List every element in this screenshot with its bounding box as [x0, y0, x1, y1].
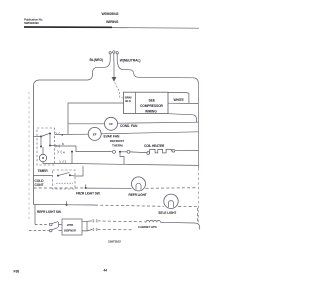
- svg-text:WTR: WTR: [67, 223, 73, 227]
- connector plug 1: [93, 220, 98, 223]
- svg-text:WHITE: WHITE: [174, 98, 185, 102]
- ground arrow: [112, 77, 117, 82]
- wire refr switch row: [34, 204, 67, 206]
- svg-text:COMPRESSOR: COMPRESSOR: [140, 104, 164, 108]
- svg-text:COND. FAN: COND. FAN: [120, 124, 138, 128]
- svg-text:REFR LIGHT: REFR LIGHT: [129, 193, 147, 197]
- wire cold control out: [70, 166, 83, 176]
- timer internal wires: [40, 137, 42, 147]
- wire to defrost heater: [130, 151, 147, 154]
- svg-text:FRZR LIGHT SW.: FRZR LIGHT SW.: [76, 192, 100, 196]
- switch door 2: [49, 229, 52, 232]
- wire line side left: [34, 60, 111, 86]
- freezer light switch node: [85, 187, 87, 189]
- defrost timer dashed box: [37, 128, 55, 165]
- svg-text:CF: CF: [109, 122, 113, 126]
- connector bracket: [82, 221, 87, 231]
- wire neutral side right: [117, 60, 198, 84]
- svg-text:CONT: CONT: [35, 183, 44, 187]
- wire timer 3 to defrost row: [55, 146, 112, 152]
- timer switch arm: [41, 133, 50, 136]
- power plug prong circles: [109, 52, 111, 54]
- wire to cabinet heater dashed: [98, 221, 147, 222]
- left bus wire: [33, 86, 35, 205]
- right bus wire: [197, 84, 199, 169]
- defrost thermostat terminal: [113, 150, 116, 153]
- wire lamp to neutral dashed: [146, 187, 197, 190]
- power plug prongs: [109, 54, 111, 60]
- wire EF right: [101, 132, 198, 134]
- defrost heater terminal right: [172, 149, 175, 152]
- header publication text: [24, 12, 119, 25]
- water dispenser box: [62, 219, 82, 235]
- svg-text:4: 4: [63, 151, 65, 155]
- ground wire: [113, 61, 115, 77]
- cold control feed wire: [34, 175, 53, 177]
- evaporator fan motor EF: [88, 127, 101, 140]
- wire freezer light row dashed: [34, 187, 84, 189]
- wire door switch row 2: [29, 230, 49, 232]
- svg-text:15971102: 15971102: [108, 239, 121, 243]
- wire CF left: [68, 123, 105, 125]
- wire stub row2 dashed: [98, 228, 133, 230]
- svg-text:F38: F38: [14, 269, 20, 273]
- wire heater to neutral: [175, 150, 199, 152]
- label COLD CONT: [35, 179, 45, 187]
- label DEFROST THERM: [110, 139, 124, 147]
- node neutral branch: [71, 151, 73, 153]
- svg-text:CABINET HTR.: CABINET HTR.: [138, 225, 158, 229]
- wire CF right: [118, 122, 199, 123]
- timer terminal bumps: [55, 132, 60, 134]
- svg-text:3: 3: [62, 142, 64, 146]
- svg-text:1: 1: [65, 160, 67, 164]
- wire EF left from timer: [55, 133, 89, 135]
- svg-text:BL(NEG): BL(NEG): [90, 58, 103, 62]
- condenser fan motor CF: [105, 117, 118, 130]
- svg-text:WIRING: WIRING: [106, 20, 119, 24]
- svg-text:BLK: BLK: [125, 99, 132, 103]
- node defrost junction: [119, 151, 121, 153]
- svg-text:2: 2: [62, 133, 64, 137]
- lamp bottle light: [164, 194, 178, 208]
- svg-text:WIRING: WIRING: [145, 109, 157, 113]
- wire door switch feed: [34, 205, 36, 225]
- svg-text:TIMER: TIMER: [38, 169, 49, 173]
- svg-text:EF: EF: [93, 132, 97, 136]
- switch door 1: [49, 223, 52, 226]
- wire bus to timer contact: [34, 136, 42, 138]
- defrost heater terminal: [147, 152, 150, 155]
- resistor defrost heater: [150, 149, 172, 153]
- svg-text:EVAP. FAN: EVAP. FAN: [104, 135, 121, 139]
- wire compressor top to neutral: [168, 92, 189, 103]
- header rule: [24, 26, 112, 28]
- connector plug 2: [93, 228, 98, 231]
- svg-text:THERM.: THERM.: [112, 143, 123, 147]
- svg-text:5995394099: 5995394099: [24, 21, 39, 25]
- svg-text:DISPNSR: DISPNSR: [64, 229, 76, 233]
- svg-text:COIL HEATER: COIL HEATER: [144, 144, 165, 148]
- wire defrost stat drop: [120, 153, 124, 165]
- wire to compressor box: [68, 103, 124, 134]
- ground dashed tail: [115, 83, 124, 99]
- left cabinet dashed border: [28, 92, 30, 219]
- compressor box: [124, 92, 169, 113]
- wire to refr lamp: [87, 187, 132, 189]
- svg-text:BTLE LIGHT: BTLE LIGHT: [159, 211, 177, 215]
- wire to bottle lamp dashed: [95, 205, 164, 206]
- wire compressor box bottom jog: [168, 114, 197, 123]
- wire compressor to neutral: [168, 102, 198, 104]
- timer terminal numbers: [62, 133, 67, 164]
- wire heater to corner: [160, 222, 199, 229]
- wire timer motor out: [43, 162, 72, 164]
- wire bottle lamp to corner dashed: [178, 206, 197, 221]
- wire neutral mid: [71, 152, 73, 164]
- svg-text:44: 44: [104, 269, 108, 273]
- lamp refr light: [132, 177, 146, 191]
- inductor cabinet heater: [146, 220, 160, 222]
- defrost thermostat terminal 2: [121, 151, 127, 153]
- svg-text:W(NEUTRAL): W(NEUTRAL): [120, 59, 141, 63]
- svg-text:SEE: SEE: [149, 99, 156, 103]
- timer contact dots: [40, 133, 51, 148]
- svg-text:W05639043: W05639043: [102, 12, 119, 16]
- svg-text:COLD: COLD: [35, 179, 45, 183]
- cold control dashed box: [53, 170, 76, 189]
- timer motor: [39, 154, 46, 161]
- cold control contacts: [57, 175, 59, 177]
- svg-text:REFR LIGHT SW.: REFR LIGHT SW.: [37, 210, 62, 214]
